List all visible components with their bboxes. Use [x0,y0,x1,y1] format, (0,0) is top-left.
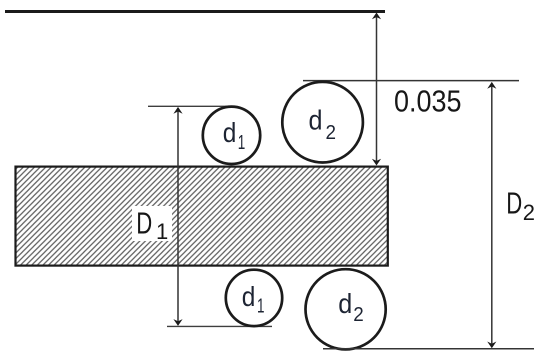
svg-text:0.035: 0.035 [394,84,462,119]
datum reference line (top thick line) [5,10,385,13]
svg-text:D: D [506,186,522,221]
svg-text:2: 2 [353,304,364,326]
arrowhead down (0.035 bottom) [372,159,381,166]
wire: 0.035 dimension vertical line [376,14,378,164]
roller d1 bottom circle [226,270,282,326]
wire: D2 dimension vertical line [491,83,493,347]
roller d1 top circle [203,107,260,164]
roller d2 bottom circle [306,269,386,349]
wire: extension line at top of roller d2 [303,80,519,82]
svg-text:d: d [242,281,256,312]
hatched block (gauge block) [16,167,388,266]
svg-text:1: 1 [257,296,265,318]
arrowhead down (D1 bottom) [173,319,182,326]
svg-text:2: 2 [523,200,535,225]
svg-text:1: 1 [156,219,168,244]
wire: D1 dimension vertical line [177,108,179,325]
label D1 white backing [132,206,172,241]
svg-text:D: D [136,205,152,240]
arrowhead down (D2 bottom) [487,342,496,349]
arrowhead up (D1 top) [173,107,182,114]
wire: D1 extension tick top [148,105,232,107]
svg-text:d: d [309,105,323,136]
arrowhead up (D2 top) [487,82,496,89]
svg-text:1: 1 [238,132,246,154]
roller d2 top circle [282,82,363,163]
arrowhead up (0.035 top) [372,13,381,20]
svg-text:2: 2 [326,122,337,144]
svg-text:d: d [223,117,237,148]
wire: D1 extension tick bottom [167,325,272,327]
wire: bottom extension line (under rollers) [323,348,534,350]
svg-text:d: d [338,288,352,319]
